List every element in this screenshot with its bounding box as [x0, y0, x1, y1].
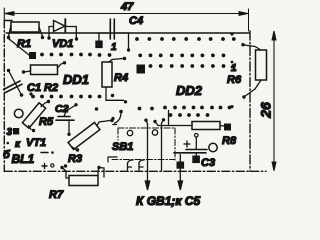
svg-text:VD1: VD1 — [52, 38, 73, 50]
board outline bottom edge — [4, 170, 266, 172]
pad to C5 (black square) — [177, 155, 185, 169]
DD2 pad row lower-1 — [138, 106, 232, 111]
top supply wire — [6, 32, 249, 34]
svg-text:R7: R7 — [49, 189, 64, 201]
svg-text:SB1: SB1 — [112, 141, 133, 153]
svg-text:R1: R1 — [17, 38, 31, 50]
wire hook to SB1 top — [113, 110, 123, 125]
plus mark — [42, 164, 47, 169]
resistor R4 — [102, 57, 127, 104]
svg-text:C1: C1 — [27, 82, 41, 94]
wire to C1 junction — [9, 39, 29, 55]
svg-text:1: 1 — [111, 42, 117, 53]
svg-text:1: 1 — [231, 63, 237, 74]
SB1 hole right — [152, 130, 157, 135]
board outline top stub — [4, 20, 12, 22]
hole near C3 — [209, 143, 217, 151]
SB1 wire to GB1 — [144, 119, 147, 172]
DD1 pad row bottom — [31, 95, 101, 99]
arrow to GB1 — [145, 171, 149, 190]
svg-text:К GB1;к С5: К GB1;к С5 — [136, 194, 200, 208]
arrow to C5 — [178, 169, 182, 190]
svg-text:R8: R8 — [222, 135, 237, 147]
svg-text:DD2: DD2 — [176, 83, 203, 98]
resistor R8 — [153, 111, 224, 130]
pad C4 left (black square) — [95, 41, 102, 49]
board outline left edge — [3, 8, 5, 21]
wire hooks at board edge — [127, 160, 133, 170]
svg-text:к: к — [15, 139, 21, 150]
svg-text:C2: C2 — [55, 103, 69, 115]
svg-text:R3: R3 — [68, 153, 82, 165]
resistor R7 — [60, 166, 104, 186]
svg-text:C3: C3 — [201, 157, 215, 169]
svg-text:R2: R2 — [44, 82, 58, 94]
board outline right edge — [249, 31, 251, 171]
svg-text:3: 3 — [7, 127, 13, 138]
resistor R3 — [68, 119, 114, 152]
resistor R1 — [7, 22, 44, 39]
svg-text:BL1: BL1 — [12, 152, 35, 166]
svg-text:47: 47 — [120, 1, 134, 13]
pad junction (black square) near C1 — [29, 52, 36, 59]
svg-text:R5: R5 — [39, 116, 54, 128]
SB1 corner step — [108, 157, 117, 162]
resistor R5 — [22, 100, 50, 132]
SB1 hole left — [127, 130, 132, 135]
capacitor C2 — [56, 103, 78, 136]
pad — [64, 164, 67, 167]
dimension 47 line — [5, 9, 249, 31]
svg-text:VT1: VT1 — [26, 137, 46, 149]
svg-text:C4: C4 — [129, 15, 143, 27]
DD1 pad row top — [40, 53, 111, 57]
DD2 pad pairs upper — [138, 54, 225, 68]
DD2 pad row lower-2 — [169, 113, 210, 117]
capacitor C1 — [4, 69, 24, 97]
mounting hole — [14, 109, 23, 118]
DD2 pin14 pad (black square) — [137, 65, 146, 74]
hole small — [51, 164, 54, 167]
resistor R2 — [22, 61, 66, 74]
capacitor C3 electrolytic — [174, 134, 207, 157]
pad R8 (black square) — [224, 124, 231, 131]
button SB1 dashed outline — [112, 128, 175, 160]
svg-text:б: б — [3, 149, 11, 161]
minus mark — [41, 152, 48, 154]
capacitor C4 — [97, 19, 131, 52]
diode VD1 — [47, 19, 78, 41]
svg-text:R6: R6 — [227, 74, 242, 86]
svg-text:26: 26 — [258, 102, 274, 119]
SB1 wire right — [162, 118, 166, 171]
dimension 26 line — [272, 31, 276, 171]
svg-text:DD1: DD1 — [63, 72, 89, 87]
DD2 pad row top single — [135, 37, 236, 41]
pad C3 (black square) — [192, 156, 200, 164]
svg-text:R4: R4 — [114, 72, 128, 84]
misc pads right side — [230, 32, 233, 108]
misc pads left of DD1 — [7, 92, 115, 144]
resistor R6 — [241, 43, 266, 99]
